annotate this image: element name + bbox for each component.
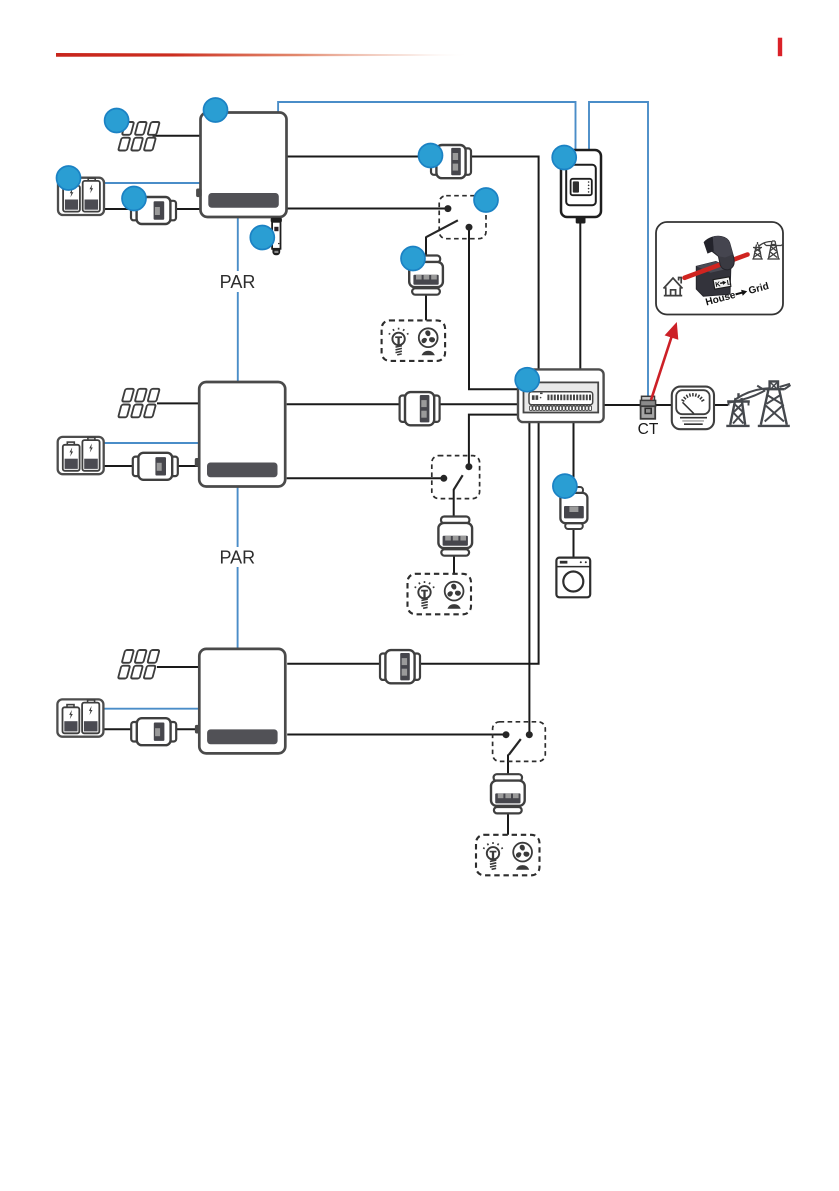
- callout dot 8 (load breaker1): [401, 247, 425, 271]
- wire battery2 comm (blue): [103, 442, 199, 444]
- red arrow CT to inset: [651, 322, 678, 400]
- header red rule: [56, 53, 472, 57]
- CT clamp on grid line: [640, 396, 655, 419]
- wire battery3 comm (blue): [104, 708, 199, 710]
- wire PAR link inverter1-inverter2 (blue): [237, 217, 239, 382]
- wire switch3 to distribution box: [528, 422, 530, 735]
- inverter 1: [196, 113, 286, 218]
- wire distribution box to grid (through CT and energy meter): [604, 404, 728, 406]
- wire battery1 comm (blue): [104, 182, 201, 184]
- wire switch3 blade to breaker3: [507, 754, 509, 774]
- wire inverter1 AC out to distribution box: [287, 157, 539, 370]
- load breaker 1: [409, 256, 443, 295]
- washing machine: [556, 558, 590, 598]
- wire smart meter to distribution box: [579, 222, 581, 369]
- battery 3: [57, 699, 103, 736]
- pv array 2: [118, 389, 160, 418]
- CT clamp body (inset): [696, 262, 731, 297]
- transmission towers (grid): [726, 381, 790, 426]
- wire inverter2 AC out to distribution box: [287, 403, 519, 405]
- wire pv2 to inverter2: [157, 402, 199, 404]
- wire distribution box to switch2: [469, 415, 519, 467]
- wire meter comm to CT (blue): [589, 102, 648, 397]
- load breaker 2: [438, 517, 472, 556]
- wire breaker3 to loads3: [507, 814, 509, 836]
- load breaker 3: [491, 774, 525, 813]
- pv array 1: [118, 122, 160, 151]
- loads 1 (bulb and fan, dashed): [382, 320, 446, 361]
- battery breaker 3: [131, 718, 176, 745]
- wire battery1 power: [104, 208, 201, 210]
- towers icon (inset): [752, 241, 783, 259]
- wire breaker2 to loads2: [453, 555, 455, 576]
- energy meter: [672, 387, 714, 430]
- callout dot 2 (inverter1): [204, 98, 228, 122]
- callout dot 9 (smart meter): [552, 146, 576, 170]
- grid breaker 2: [400, 392, 440, 425]
- wire pv1 to inverter1: [153, 135, 201, 137]
- wire washing machine breaker to washing machine: [573, 529, 575, 558]
- inverter 3: [195, 649, 285, 754]
- wire inverter3 AC out to distribution box: [287, 422, 538, 664]
- wire inverter3 backup out to switch3: [287, 734, 506, 736]
- callout dot 10 (distribution box): [515, 368, 539, 392]
- transfer switch 1 (dashed): [426, 196, 486, 239]
- wifi dongle on inverter1: [271, 218, 282, 256]
- wire PAR link inverter2-inverter3 (blue): [237, 487, 239, 649]
- grid breaker 3: [380, 650, 420, 683]
- wire pv3 to inverter3: [157, 666, 199, 668]
- loads 3 (bulb and fan, dashed): [476, 835, 540, 876]
- house icon (inset): [664, 278, 683, 296]
- K to L label on clamp: [713, 277, 732, 290]
- battery 2: [58, 437, 104, 474]
- CT detail inset box: [656, 222, 784, 315]
- callout dot 1 (pv1): [105, 109, 129, 133]
- callout dot 6 (grid breaker1): [419, 144, 443, 168]
- callout dot 7 (switch1): [474, 188, 498, 212]
- House to Grid label: [704, 281, 770, 308]
- battery breaker 2: [133, 453, 178, 480]
- wire inverter1 comm to meter (blue): [278, 102, 575, 151]
- wire inverter1 backup out to switch1: [287, 208, 448, 210]
- callout dot 5 (dongle): [250, 226, 274, 250]
- wire switch1 blade to breaker1: [425, 237, 427, 256]
- svg-text:PAR: PAR: [220, 272, 256, 292]
- wire breaker1 to loads1: [425, 294, 427, 321]
- wire battery2 power: [103, 465, 199, 467]
- callout dot 11 (washing machine breaker): [553, 474, 577, 498]
- battery 1: [58, 178, 104, 215]
- wire distribution box to washing machine breaker: [573, 422, 575, 487]
- transfer switch 3 (dashed): [493, 722, 546, 762]
- washing machine breaker: [560, 487, 587, 529]
- wire battery3 power: [104, 728, 199, 730]
- transfer switch 2 (dashed): [432, 456, 480, 499]
- loads 2 (bulb and fan, dashed): [408, 574, 472, 615]
- callout dot 4 (battery breaker1): [122, 187, 146, 211]
- pv array 3: [118, 650, 160, 679]
- inverter 2: [195, 382, 285, 487]
- wire switch1 to distribution box: [469, 227, 519, 389]
- CT clamp arm (inset): [704, 236, 734, 270]
- smart meter device: [561, 150, 601, 224]
- battery breaker 1: [131, 197, 176, 224]
- callout dot 3 (battery1): [57, 166, 81, 190]
- wire switch2 blade to breaker2: [453, 489, 455, 517]
- wire inverter2 backup out to switch2: [287, 477, 444, 479]
- svg-text:PAR: PAR: [219, 548, 255, 568]
- header red tab: [778, 38, 782, 57]
- svg-text:CT: CT: [638, 421, 659, 438]
- red conductor through CT: [685, 255, 748, 278]
- distribution box: [518, 369, 604, 422]
- grid breaker 1: [431, 145, 471, 178]
